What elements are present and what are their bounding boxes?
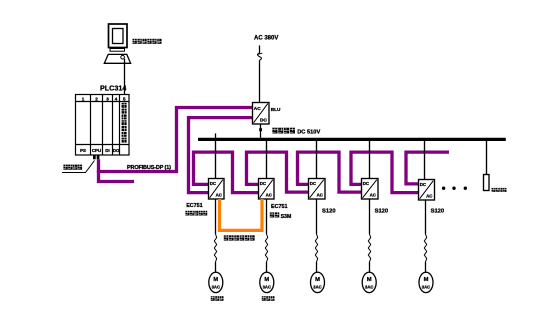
motor M4 xyxy=(362,272,376,292)
svg-text:1: 1 xyxy=(82,96,85,101)
wire: PROFIBUS inverter 2 to inverter 3 xyxy=(247,152,309,192)
wire: bus drop to inverter 3 xyxy=(316,141,318,179)
svg-text:M: M xyxy=(315,277,320,283)
svg-text:BLU: BLU xyxy=(271,107,281,112)
label: motor 2 name (CJK) xyxy=(262,296,275,301)
motor M1 xyxy=(209,272,223,292)
svg-text:DC: DC xyxy=(260,181,267,186)
svg-text:3: 3 xyxy=(106,96,109,101)
svg-text:AC: AC xyxy=(216,193,223,198)
svg-text:AC: AC xyxy=(254,106,261,112)
inverter U3 (DC/AC) xyxy=(309,179,326,200)
circuit breaker symbol xyxy=(258,53,262,60)
svg-text:EC751: EC751 xyxy=(186,203,202,209)
wire: computer to PLC CP module xyxy=(124,59,126,95)
svg-text:PLC314: PLC314 xyxy=(100,83,126,92)
svg-text:DC: DC xyxy=(310,181,317,186)
label: inverter type (CJK) xyxy=(270,212,279,217)
wire: AC line to rectifier xyxy=(259,60,261,102)
svg-text:AC: AC xyxy=(426,194,433,199)
svg-text:S120: S120 xyxy=(375,208,389,214)
wire: bus drop to inverter 2 xyxy=(266,141,268,179)
PLC slot numbers xyxy=(82,96,126,101)
svg-text:4: 4 xyxy=(115,96,118,101)
wire: PROFIBUS inverter 1 to inverter 2 xyxy=(194,152,259,193)
svg-text:DC 510V: DC 510V xyxy=(297,129,320,135)
wire: inverter 2 to motor M2 cable xyxy=(266,199,268,234)
wire: PROFIBUS inverter 4 to inverter 5 xyxy=(351,152,419,193)
leader line for analog setpoint xyxy=(62,161,95,173)
wire: bus drop to braking resistor xyxy=(486,141,488,175)
DC bus xyxy=(198,138,506,141)
wire: PROFIBUS PLC to rectifier BLU xyxy=(99,108,253,172)
label: rectifier-feedback (CJK) xyxy=(185,211,207,216)
inverter U2 (DC/AC) xyxy=(259,179,275,200)
label: energy feedback cable (CJK) xyxy=(224,235,255,240)
wire: rectifier to DC bus xyxy=(260,124,262,138)
svg-text:3AC: 3AC xyxy=(212,284,220,289)
svg-text:PS: PS xyxy=(80,148,86,153)
svg-text:AC: AC xyxy=(370,193,377,198)
svg-text:2: 2 xyxy=(95,96,98,101)
svg-text:S120: S120 xyxy=(322,208,336,214)
label: analog setpoint (CJK) xyxy=(63,165,82,170)
inverter U5 (DC/AC) xyxy=(419,180,435,201)
wire: inverter 3 to motor M3 cable xyxy=(316,199,318,234)
svg-text:S120: S120 xyxy=(431,208,445,214)
motor M5 xyxy=(419,272,433,292)
svg-text:AC: AC xyxy=(317,193,324,198)
svg-text:M: M xyxy=(213,277,218,283)
inverter U4 (DC/AC) xyxy=(362,179,379,200)
svg-text:DC: DC xyxy=(420,182,427,187)
svg-text:M: M xyxy=(367,277,372,283)
svg-text:EC751: EC751 xyxy=(271,204,287,210)
svg-text:DC: DC xyxy=(260,117,267,123)
wire: bus drop to inverter 5 xyxy=(424,141,426,180)
label: DC bus voltage (CJK) xyxy=(272,128,295,134)
label: operator computer (CJK) xyxy=(133,39,162,44)
svg-text:3AC: 3AC xyxy=(365,284,373,289)
wire: bus drop to inverter 1 xyxy=(215,141,217,179)
svg-text:DC: DC xyxy=(210,181,217,186)
wire: PROFIBUS inverter 5 continuation xyxy=(406,152,449,184)
PLC S7-300 rack xyxy=(76,95,130,156)
svg-text:3AC: 3AC xyxy=(313,284,321,289)
svg-text:AC: AC xyxy=(266,193,273,198)
ellipsis: more drives xyxy=(442,187,467,190)
wire: bus drop to inverter 4 xyxy=(369,141,371,179)
wire: PROFIBUS stub below PLC xyxy=(99,171,135,182)
PLC module labels PS CPU DI DO xyxy=(80,148,120,153)
energy feedback cable (orange) xyxy=(220,199,263,230)
inverter U1 (DC/AC) xyxy=(209,179,225,200)
wire: AC supply line xyxy=(259,46,261,54)
PLC MPI port stubs xyxy=(93,155,96,159)
wire: PROFIBUS inverter 3 to inverter 4 xyxy=(298,152,362,192)
rectifier BLU (AC/DC) xyxy=(253,103,270,125)
svg-text:DO: DO xyxy=(113,148,120,153)
label: motor 1 name (CJK) xyxy=(211,296,224,301)
wire: inverter 4 to motor M4 cable xyxy=(369,199,371,234)
junction nub xyxy=(215,133,217,137)
label: braking resistor (CJK) xyxy=(492,188,507,192)
motor M2 xyxy=(260,272,274,292)
braking resistor xyxy=(484,175,490,191)
wire: PROFIBUS BLU to inverter 1 xyxy=(189,118,253,193)
svg-text:DC: DC xyxy=(363,181,370,186)
computer operator station icon xyxy=(104,24,130,63)
svg-text:DI: DI xyxy=(105,148,109,153)
svg-text:M: M xyxy=(264,277,269,283)
svg-text:M: M xyxy=(424,277,429,283)
PLC CP module vertical label (CJK) xyxy=(122,103,127,143)
junction dot xyxy=(259,128,262,131)
wire: inverter 5 to motor M5 cable xyxy=(425,200,427,234)
svg-text:5: 5 xyxy=(123,96,126,101)
svg-text:AC 380V: AC 380V xyxy=(254,36,278,42)
svg-text:CPU: CPU xyxy=(92,148,101,153)
svg-text:3AC: 3AC xyxy=(422,284,430,289)
wire: inverter 1 to motor M1 cable xyxy=(215,199,217,234)
svg-text:S3M: S3M xyxy=(281,214,292,220)
svg-text:3AC: 3AC xyxy=(263,284,271,289)
motor M3 xyxy=(311,272,325,292)
